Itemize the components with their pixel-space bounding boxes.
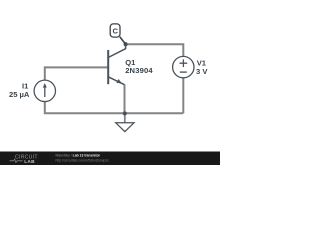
wire collector node to V1 top — [126, 44, 184, 56]
current source I1 — [34, 80, 55, 101]
junction dot ground node — [123, 111, 127, 115]
svg-text:LAB: LAB — [24, 159, 35, 165]
collector lead — [108, 44, 125, 57]
emitter lead — [108, 77, 124, 85]
svg-text:25 µA: 25 µA — [9, 90, 30, 99]
svg-text:2N3904: 2N3904 — [125, 66, 153, 75]
transistor Q1 — [108, 44, 125, 84]
junction dot collector node — [124, 42, 128, 46]
wire emitter down — [124, 84, 126, 113]
node label C — [110, 24, 125, 44]
svg-text:3 V: 3 V — [196, 67, 208, 76]
base bar — [107, 50, 109, 84]
wire base (I1 top to Q1 base) — [45, 67, 108, 80]
watermark logo waveform — [10, 159, 23, 162]
wire bottom rail — [45, 102, 184, 114]
minus sign — [180, 71, 187, 73]
watermark bar — [0, 152, 220, 166]
svg-text:C: C — [113, 26, 119, 35]
ground — [116, 123, 134, 132]
svg-text:http://circuitlab.com/c/5dhv3b: http://circuitlab.com/c/5dhv3bzwp2c — [56, 158, 110, 162]
plus sign — [180, 62, 188, 64]
emitter arrow — [116, 79, 122, 83]
wire V1 bottom down — [182, 78, 184, 114]
voltage source V1 — [173, 56, 194, 77]
wire ground stub — [124, 113, 126, 122]
svg-text:Makofsky / Lab 13 transistor: Makofsky / Lab 13 transistor — [56, 154, 101, 158]
